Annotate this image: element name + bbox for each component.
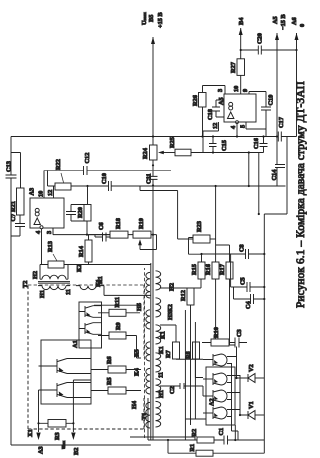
wire pin12 to feedback: [202, 131, 204, 153]
resistor R7: [165, 342, 180, 359]
pin 12: [203, 122, 219, 131]
pin 10: [38, 171, 45, 199]
svg-text:C4: C4: [245, 300, 252, 309]
resistor R15: [191, 262, 205, 279]
capacitor C5: [240, 277, 251, 292]
capacitor C8: [239, 244, 249, 259]
svg-text:10: 10: [38, 191, 45, 197]
terminal arrow B2 input: [72, 404, 74, 432]
svg-text:C15: C15: [221, 140, 228, 151]
wire R26 left to big vertical: [202, 107, 204, 137]
wire C6 vertical: [95, 235, 110, 237]
node dots input bus: [167, 439, 169, 441]
wire 0V rail yl=296.5: [296, 33, 298, 137]
svg-text:R20: R20: [77, 207, 84, 218]
pin 4: [230, 122, 238, 138]
svg-text:C2: C2: [169, 386, 176, 394]
arrow output B4: [239, 28, 243, 35]
resistor R17: [219, 262, 233, 279]
capacitor C4: [245, 294, 254, 309]
trimmer arrow on R19: [140, 235, 157, 250]
unnamed capacitor near A3: [66, 205, 87, 222]
wire elbow top xl=272: [47, 171, 49, 187]
svg-text:uвх: uвх: [60, 440, 67, 449]
resistor R21: [10, 188, 24, 215]
wire R20 to vertical xl=272: [86, 186, 89, 235]
capacitor C17 in big vertical: [278, 117, 285, 141]
svg-text:А1: А1: [72, 340, 79, 348]
svg-text:X1: X1: [27, 429, 34, 437]
capacitor C13: [6, 161, 17, 178]
svg-text:R23: R23: [196, 221, 203, 232]
resistor R12: [180, 288, 194, 305]
resistor R2 vertical: [191, 429, 214, 443]
svg-text:C6: C6: [98, 222, 105, 230]
transistor Ta: [203, 354, 227, 366]
svg-text:R18: R18: [115, 218, 122, 229]
wire top common rail yl=11: [10, 137, 12, 446]
resistor R27: [230, 59, 245, 76]
wire C7: [11, 215, 20, 236]
svg-text:C8: C8: [239, 244, 246, 252]
wire long feed lines to A2 bases: [185, 310, 206, 440]
wires R5 R6 to A1: [91, 370, 141, 391]
T1 winding labels lower: [158, 283, 176, 398]
wire R10 C3 chain: [202, 342, 247, 344]
resistor R11: [109, 297, 126, 316]
svg-text:R21: R21: [10, 201, 17, 212]
capacitor C14: [271, 165, 285, 181]
svg-text:4: 4: [35, 230, 42, 234]
T2 winding H2 (right): [32, 271, 68, 279]
pin 3: [46, 228, 110, 235]
node junction dots on rail: [152, 184, 154, 186]
svg-text:C1: C1: [218, 428, 225, 436]
svg-text:A5: A5: [272, 16, 279, 24]
svg-text:R5: R5: [106, 377, 113, 385]
svg-text:0: 0: [299, 24, 306, 27]
wire big right vertical xl=321.5: [11, 136, 297, 138]
block A2 box: [206, 367, 235, 425]
svg-text:3: 3: [46, 231, 53, 234]
wire R21 ends: [11, 153, 21, 189]
svg-text:А6: А6: [291, 17, 298, 25]
svg-text:R25: R25: [169, 137, 176, 148]
svg-text:R27: R27: [230, 62, 237, 73]
wire R23 top chain: [140, 186, 193, 239]
svg-text:C5: C5: [240, 277, 247, 285]
resistor R26: [192, 93, 206, 108]
svg-text:К5: К5: [134, 349, 141, 357]
T1 upper windings: [146, 272, 150, 428]
T1 core line: [150, 263, 152, 440]
wire left edge vertical xl=13: [11, 444, 151, 446]
resistor R13 vertical: [47, 241, 64, 268]
svg-text:R13: R13: [47, 241, 54, 252]
diode V1: [240, 401, 264, 419]
wire A1 inputs: [39, 366, 92, 404]
capacitor C10: [101, 173, 111, 191]
svg-text:C10: C10: [101, 173, 108, 184]
pin 5: [240, 122, 267, 129]
svg-text:V1: V1: [248, 401, 255, 409]
svg-text:R6: R6: [106, 356, 113, 364]
svg-text:Н5: Н5: [136, 303, 143, 311]
svg-text:Uвых: Uвых: [141, 11, 148, 25]
svg-text:C19: C19: [268, 95, 275, 106]
svg-text:Н1: Н1: [158, 390, 165, 398]
wire feedback xl=287 / C12 line yl=86: [44, 170, 171, 172]
wire R2 C1 chain: [148, 439, 264, 441]
svg-text:B5: B5: [148, 15, 155, 22]
T1 lower windings: [156, 271, 161, 427]
wire R18-R19 and to rail: [128, 234, 153, 236]
capacitor C12: [84, 153, 92, 175]
T1 winding labels upper: [131, 303, 143, 409]
transistor Td: [203, 407, 227, 419]
resistor R5: [106, 377, 126, 394]
svg-text:R1: R1: [189, 444, 196, 452]
resistor R6: [106, 356, 126, 373]
wire C16 branch: [263, 137, 265, 153]
pin 9: [242, 89, 266, 95]
wire C8 branch vertical xl=204: [202, 253, 265, 255]
T2 core: [38, 282, 70, 284]
capacitor C3: [235, 329, 243, 347]
resistor R1 vertical: [189, 444, 213, 456]
svg-text:C13: C13: [6, 161, 13, 172]
arrow output Uvyh B5 +15V: [151, 37, 155, 44]
wire C5 branch vertical xl=171: [231, 254, 265, 287]
resistor R14: [78, 240, 92, 262]
wire A2 emitter link: [234, 425, 236, 440]
capacitor C11 in rail: [146, 174, 158, 185]
svg-text:4: 4: [230, 125, 237, 129]
svg-text:5: 5: [240, 125, 247, 128]
svg-text:C3: C3: [236, 329, 243, 337]
resistor R10 vertical: [211, 327, 229, 346]
wire C15 between verticals: [212, 137, 214, 153]
transistor in A1 left: [47, 383, 91, 398]
wire link staircase to x305 line: [258, 153, 260, 215]
svg-text:C14: C14: [271, 169, 278, 181]
capacitor C6: [98, 222, 106, 241]
svg-text:R24: R24: [142, 147, 149, 159]
svg-text:12: 12: [212, 123, 219, 129]
wire yl=215.6 horizontal: [215, 186, 217, 262]
resistor R24 in rail: [142, 145, 157, 160]
terminal arrow A3 input: [38, 404, 40, 432]
wire R8 to Tb base: [195, 359, 203, 378]
wire R1 chain: [168, 452, 264, 454]
wire pair2 runs down to T1: [94, 305, 141, 358]
resistor R8: [185, 342, 200, 359]
wire -15V rail yl=276: [276, 33, 278, 186]
svg-text:Н4: Н4: [131, 400, 138, 409]
svg-text:C11: C11: [146, 174, 153, 185]
svg-text:К1: К1: [95, 279, 102, 287]
resistor R22 vertical: [55, 159, 71, 190]
capacitor C2: [169, 383, 184, 394]
wire R26 right up and over to pin3: [202, 86, 204, 93]
wire R7 to Ta base: [160, 325, 203, 359]
svg-text:3: 3: [217, 89, 224, 92]
wire A3 out chain to R18: [52, 228, 54, 235]
diode V2: [237, 364, 265, 382]
transistor Tb: [203, 373, 227, 385]
wire C3 bottom to V2 line: [236, 347, 238, 379]
transistor Tc: [203, 390, 227, 402]
wire R12 ends: [160, 279, 201, 425]
pin 10: [233, 86, 241, 94]
capacitor C7: [10, 214, 25, 227]
dashed box (isolated primary section): [28, 285, 144, 429]
svg-text:Н2: Н2: [169, 283, 176, 291]
svg-text:R19: R19: [138, 218, 145, 229]
svg-text:Н1: Н1: [39, 290, 46, 298]
svg-text:Н3К2: Н3К2: [167, 304, 174, 320]
capacitor C16: [253, 138, 268, 149]
wire main horizontal rail yl=153 (T1 core / +15V out): [152, 37, 154, 440]
block A1 pair box 2: [79, 302, 102, 348]
capacitor C1: [218, 428, 228, 445]
op-amp A3: [29, 188, 65, 228]
svg-text:11: 11: [158, 372, 165, 378]
T1 screen dashed: [144, 268, 146, 438]
wire C2 vertical: [160, 386, 203, 396]
wire left bus xl=21: [130, 437, 195, 440]
wire long vertical xl=272 (C10 line): [48, 185, 286, 187]
svg-text:R15: R15: [191, 264, 198, 275]
resistor R16: [205, 262, 219, 279]
svg-text:R22: R22: [55, 159, 62, 170]
wire R14 ends: [64, 235, 151, 265]
wire pin9/C19 line: [265, 95, 267, 137]
svg-text:R3: R3: [54, 432, 61, 440]
T2 winding H1 (left): [38, 286, 72, 298]
arrow output A5 -15V: [275, 33, 279, 40]
transistor pair2 a: [79, 306, 102, 318]
wire R15 chain to R23: [189, 238, 202, 263]
svg-text:C12: C12: [84, 153, 91, 164]
pin 4: [35, 226, 43, 264]
svg-text:R12: R12: [180, 290, 187, 301]
svg-text:Рисунок 6.1 – Комірка давача с: Рисунок 6.1 – Комірка давача струму ДТ-З…: [295, 81, 307, 308]
svg-text:R17: R17: [219, 264, 226, 275]
capacitor C18: [207, 107, 220, 120]
svg-text:R10: R10: [213, 327, 220, 338]
svg-text:C18: C18: [207, 109, 214, 120]
svg-text:К2: К2: [76, 264, 83, 272]
svg-text:К1: К1: [158, 346, 165, 354]
resistor R23 vertical: [193, 221, 210, 243]
wire R13 / T2 H2 parallel: [40, 264, 68, 279]
node junction -15V rail on big vertical: [276, 135, 278, 137]
transistor pair2 b: [79, 323, 102, 335]
svg-text:R7: R7: [165, 350, 172, 358]
svg-text:9: 9: [242, 89, 249, 92]
capacitor C19 on pin9 line: [261, 95, 275, 110]
block A1 box: [41, 340, 91, 404]
pin 12: [47, 186, 54, 198]
svg-text:C20: C20: [257, 33, 264, 44]
resistor R20: [77, 205, 91, 222]
svg-text:R14: R14: [78, 245, 85, 257]
wire C4 branch vertical xl=159: [234, 287, 265, 299]
transistor in A1 right: [47, 359, 91, 374]
wire C18: [216, 100, 224, 117]
svg-text:A5: A5: [218, 97, 225, 105]
svg-text:К1: К1: [160, 331, 167, 339]
svg-text:R26: R26: [192, 95, 199, 106]
svg-text:B2: B2: [73, 448, 80, 455]
capacitor C15: [209, 140, 228, 151]
wire R23 bottom: [210, 238, 216, 240]
T2 winding K1 (second group left column): [76, 276, 151, 295]
svg-text:C16: C16: [253, 138, 260, 149]
capacitor C20: [257, 33, 264, 54]
wire R17 link: [216, 245, 235, 345]
svg-text:R9: R9: [115, 322, 122, 330]
resistor R25 trimmer below R24: [158, 137, 191, 156]
svg-text:C17: C17: [278, 117, 285, 128]
resistor R18 vertical: [110, 218, 128, 238]
wire C20 bus vertical xl=408: [241, 49, 297, 51]
svg-text:А3: А3: [29, 188, 36, 196]
wire transistor legs buses: [227, 357, 240, 417]
pin 3: [203, 86, 226, 95]
wire left bus links: [148, 398, 168, 453]
svg-text:R11: R11: [114, 297, 121, 308]
svg-text:10: 10: [233, 86, 240, 92]
svg-text:V2: V2: [248, 364, 255, 372]
resistor R3 vertical: [48, 420, 66, 441]
svg-text:Н2: Н2: [32, 271, 39, 279]
wire link C10line to x305 line: [248, 153, 250, 187]
wire vertical xl=304.5 (R24 branch down): [191, 152, 264, 154]
svg-text:12: 12: [47, 190, 54, 196]
svg-text:К4: К4: [134, 367, 141, 376]
resistor R9: [109, 322, 126, 339]
svg-text:R16: R16: [205, 264, 212, 275]
svg-text:+15 В: +15 В: [157, 12, 164, 28]
resistor R19 vertical: [133, 218, 151, 238]
wire R3 to terminals: [39, 422, 74, 424]
arrow output A6 0: [295, 33, 299, 40]
svg-text:R2: R2: [191, 429, 198, 437]
svg-text:А3: А3: [38, 446, 45, 454]
op-amp A5: [218, 94, 256, 124]
svg-text:−15 В: −15 В: [280, 14, 287, 30]
wire B4 rail yl=240.7: [240, 28, 242, 90]
svg-text:B4: B4: [238, 17, 245, 25]
svg-text:C7: C7: [10, 214, 17, 222]
wire 0V distribution staircase: [264, 137, 287, 454]
svg-text:11: 11: [65, 289, 72, 295]
